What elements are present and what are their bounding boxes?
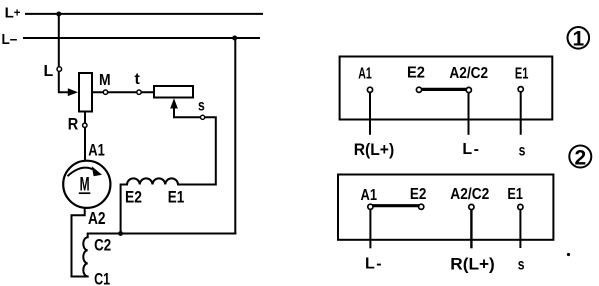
starter rheostat M-R <box>79 73 92 112</box>
svg-text:R(L+): R(L+) <box>450 255 495 274</box>
svg-text:E2: E2 <box>410 186 427 203</box>
arrow into starter <box>68 88 78 96</box>
svg-text:E2: E2 <box>125 188 142 207</box>
svg-text:E1: E1 <box>515 65 529 82</box>
box1 terminal A2/C2 <box>466 87 471 92</box>
circled number 1 <box>568 27 590 49</box>
rail L- <box>24 37 259 39</box>
svg-text:C1: C1 <box>94 270 110 286</box>
circled number 2 <box>569 146 591 168</box>
svg-text:E2: E2 <box>407 65 425 82</box>
svg-text:s: s <box>198 97 205 114</box>
speck <box>567 253 570 256</box>
svg-text:L–: L– <box>2 31 18 48</box>
field resistor t <box>154 86 193 98</box>
box1 stub E1 <box>520 92 522 134</box>
svg-text:t: t <box>135 71 141 88</box>
inductor E2-E1 <box>121 178 216 184</box>
svg-text:A2/C2: A2/C2 <box>450 186 489 203</box>
svg-text:2: 2 <box>574 146 586 169</box>
box2 terminal E1 <box>518 204 523 209</box>
svg-text:L+: L+ <box>5 5 21 22</box>
terminal circle s <box>201 115 205 119</box>
wire starter to t-resistor <box>93 91 154 93</box>
wire L+ drop to starter <box>59 14 70 92</box>
wire L- drop <box>234 38 236 234</box>
svg-text:E1: E1 <box>507 186 523 203</box>
box2 terminal E2 <box>419 204 424 209</box>
svg-text:R(L+): R(L+) <box>354 140 395 159</box>
terminal box 2 <box>338 175 553 240</box>
svg-text:L-: L- <box>365 256 383 273</box>
box2 stub E1 <box>519 210 521 248</box>
terminal circle R <box>83 123 87 127</box>
box2 stub A1 <box>369 210 371 249</box>
box1 terminal E2 <box>416 87 421 92</box>
svg-text:C2: C2 <box>94 236 111 255</box>
motor M armature circle <box>63 161 110 208</box>
box2 stub A2/C2 <box>470 210 472 248</box>
motor rotation arrow <box>68 168 96 177</box>
box1 stub A1 <box>369 92 371 135</box>
svg-text:M: M <box>99 72 111 89</box>
wire motor A2 around to C1 <box>72 208 88 276</box>
svg-text:1: 1 <box>572 28 584 51</box>
box2 terminal A2/C2 <box>469 204 474 209</box>
svg-text:A1: A1 <box>361 187 378 204</box>
terminal circle L <box>57 67 62 72</box>
svg-text:L: L <box>44 63 54 80</box>
svg-text:A2/C2: A2/C2 <box>449 65 488 82</box>
svg-text:A1: A1 <box>358 65 372 82</box>
svg-text:s: s <box>519 142 526 159</box>
terminal box 1 <box>340 57 553 120</box>
box1 terminal A1 <box>367 87 372 92</box>
junction dot on L- <box>232 36 237 41</box>
svg-text:s: s <box>518 257 525 274</box>
wiper arrow under t resistor <box>170 98 178 108</box>
box1 jumper E2 to A2/C2 <box>420 88 468 91</box>
wire bottom return <box>88 233 236 235</box>
wire junction to E2 <box>120 185 122 234</box>
svg-text:A2: A2 <box>88 208 106 228</box>
inductor C2-C1 <box>83 234 87 277</box>
terminal circle M <box>103 90 107 94</box>
wire wiper to s and down to E1 <box>174 105 216 185</box>
svg-text:E1: E1 <box>168 188 185 207</box>
box1 terminal E1 <box>518 87 523 92</box>
svg-text:A1: A1 <box>88 141 105 160</box>
junction dot bottom return <box>118 231 123 236</box>
svg-text:R: R <box>68 116 79 134</box>
junction dot on L+ <box>56 12 61 17</box>
svg-text:L-: L- <box>462 141 480 158</box>
box2 jumper A1 to E2 <box>372 204 421 207</box>
box2 terminal A1 <box>368 204 373 209</box>
box1 stub A2/C2 <box>468 92 470 134</box>
terminal circle t <box>137 90 141 94</box>
wire starter R down to motor <box>84 112 86 161</box>
rail L+ <box>26 13 262 15</box>
